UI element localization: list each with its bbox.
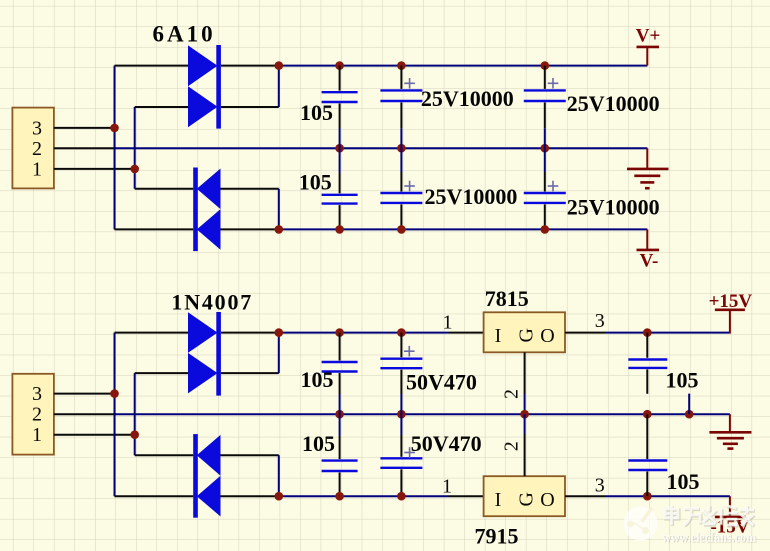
capacitor 50V470 upper xyxy=(380,333,476,415)
wire GND rail xyxy=(115,147,648,149)
ground bottom xyxy=(709,414,751,448)
wire pin1 J2 xyxy=(54,434,135,436)
wire anode D2 xyxy=(135,106,188,108)
capacitor 105 b-upper xyxy=(301,333,358,415)
svg-text:3: 3 xyxy=(32,118,42,140)
svg-text:3: 3 xyxy=(595,310,605,332)
junction m4 xyxy=(643,410,652,419)
wire -15V rail xyxy=(605,495,730,497)
svg-text:25V10000: 25V10000 xyxy=(567,91,660,116)
wire anode D6 xyxy=(135,372,188,374)
svg-text:6A10: 6A10 xyxy=(153,22,216,47)
svg-text:2: 2 xyxy=(501,441,523,451)
svg-text:1: 1 xyxy=(32,159,42,181)
wire pin1 J1 xyxy=(54,168,135,170)
junction C1 top xyxy=(335,61,344,70)
junction b3 xyxy=(397,328,406,337)
svg-text:105: 105 xyxy=(667,469,700,494)
svg-text:1N4007: 1N4007 xyxy=(171,290,253,315)
diode pair D3 D4 xyxy=(193,168,220,252)
capacitor 105 out-upper xyxy=(628,333,698,394)
junction out2 xyxy=(643,492,652,501)
svg-text:50V470: 50V470 xyxy=(411,431,482,456)
wire rail to U2 xyxy=(279,495,449,497)
capacitor 25V10000 B xyxy=(524,66,660,149)
junction b2 xyxy=(335,328,344,337)
svg-text:G: G xyxy=(516,492,538,506)
wire cathode D8 xyxy=(115,495,194,497)
wire pin2 J2 xyxy=(54,413,116,415)
diode pair D7 D8 xyxy=(193,434,220,518)
wire cathode D4 xyxy=(115,228,194,230)
junction pin1 xyxy=(130,165,139,174)
junction C1 bot xyxy=(335,225,344,234)
power V- xyxy=(637,229,660,271)
wire anode D4 xyxy=(221,228,279,230)
junction C2 mid xyxy=(397,144,406,153)
wire V+ rail xyxy=(279,65,648,67)
junction C2 top xyxy=(397,61,406,70)
capacitor 105 top-left xyxy=(300,66,358,149)
wire cathode D5 xyxy=(221,332,279,334)
junction pin1 J2 xyxy=(130,430,139,439)
wire pin2 J1 xyxy=(54,147,116,149)
capacitor 25V10000 D xyxy=(524,148,660,229)
wire cathode D1 xyxy=(221,65,279,67)
wire join cathodes2 xyxy=(278,332,280,374)
junction c3 xyxy=(397,492,406,501)
wire cathode D6 xyxy=(221,372,279,374)
svg-text:105: 105 xyxy=(666,368,699,393)
junction out1 xyxy=(643,328,652,337)
junction c2 xyxy=(335,492,344,501)
svg-text:7815: 7815 xyxy=(485,286,529,311)
junction m1 xyxy=(335,410,344,419)
pin 2 U1 xyxy=(524,352,526,394)
wire join anodes xyxy=(278,189,280,230)
power -15V xyxy=(710,496,749,537)
svg-text:1: 1 xyxy=(443,312,453,334)
wire vertical node C xyxy=(114,333,116,497)
svg-text:3: 3 xyxy=(595,475,605,497)
junction b1 xyxy=(275,328,284,337)
wire cathode D7 xyxy=(135,454,194,456)
svg-text:O: O xyxy=(540,325,554,347)
wire anode D1 xyxy=(115,65,189,67)
junction m5 xyxy=(685,410,694,419)
wire anode D5 xyxy=(115,332,189,334)
pin 3 U1 xyxy=(565,332,605,334)
junction c1 xyxy=(275,492,284,501)
svg-text:www.elecfans.com: www.elecfans.com xyxy=(662,531,756,546)
wire cathode D2 xyxy=(221,106,279,108)
wire pin3 J2 xyxy=(54,393,115,395)
svg-text:2: 2 xyxy=(32,404,42,426)
junction pin3 J2 xyxy=(110,389,119,398)
svg-text:2: 2 xyxy=(32,138,42,160)
svg-text:105: 105 xyxy=(299,170,332,195)
svg-text:I: I xyxy=(495,325,502,347)
connector J2 xyxy=(12,374,54,455)
svg-text:1: 1 xyxy=(32,424,42,446)
pin 2 U2 xyxy=(524,434,526,476)
connector J1 xyxy=(12,108,54,189)
wire mid rail B xyxy=(115,413,730,415)
svg-text:O: O xyxy=(540,489,554,511)
junction C1 mid xyxy=(335,144,344,153)
diode pair D1 D2 6A10 xyxy=(153,22,221,129)
capacitor 50V470 lower xyxy=(380,414,481,496)
wire +15V rail xyxy=(605,332,730,334)
junction pin3 xyxy=(110,124,119,133)
svg-text:G: G xyxy=(516,328,538,342)
junction C3 top xyxy=(541,61,550,70)
wire anode D8 xyxy=(221,495,279,497)
watermark chinese text xyxy=(666,506,755,526)
wire join cathodes xyxy=(278,65,280,107)
wire vertical node A xyxy=(114,66,116,230)
regulator U2 7915 xyxy=(475,476,566,548)
junction C3 mid xyxy=(541,144,550,153)
wire anode D3 xyxy=(221,188,279,190)
svg-text:3: 3 xyxy=(32,383,42,405)
regulator U1 7815 xyxy=(484,286,565,353)
capacitor 105 b-lower xyxy=(302,414,358,496)
wire rail to U1 xyxy=(279,332,449,334)
ground top xyxy=(627,148,669,188)
watermark logo xyxy=(624,507,658,541)
wire cathode D3 xyxy=(135,188,194,190)
junction m2 xyxy=(397,410,406,419)
pin 1 U2 xyxy=(449,495,484,497)
svg-text:+15V: +15V xyxy=(709,291,753,312)
capacitor 25V10000 C xyxy=(380,148,517,229)
svg-text:25V10000: 25V10000 xyxy=(567,195,660,220)
pin 3 U2 xyxy=(565,495,605,497)
svg-text:7915: 7915 xyxy=(475,524,519,549)
power V+ xyxy=(636,26,661,66)
svg-text:25V10000: 25V10000 xyxy=(425,184,518,209)
svg-text:V+: V+ xyxy=(636,26,661,47)
svg-text:25V10000: 25V10000 xyxy=(421,86,514,111)
svg-text:1: 1 xyxy=(442,476,452,498)
junction rail xyxy=(275,61,284,70)
svg-text:105: 105 xyxy=(301,367,334,392)
pin 1 U1 xyxy=(449,332,484,334)
svg-text:V-: V- xyxy=(640,251,659,272)
junction rail2 xyxy=(275,225,284,234)
wire vertical node D xyxy=(134,373,136,455)
wire anode D7 xyxy=(221,454,279,456)
junction C2 bot xyxy=(397,225,406,234)
wire V- rail xyxy=(279,228,648,230)
diode pair D5 D6 1N4007 xyxy=(171,290,253,396)
capacitor 105 out-lower xyxy=(628,414,699,496)
junction C3 bot xyxy=(541,225,550,234)
power +15V xyxy=(709,291,753,334)
capacitor 25V10000 A xyxy=(380,66,513,149)
svg-text:2: 2 xyxy=(501,389,523,399)
junction m3 xyxy=(520,410,529,419)
wire stub node E xyxy=(688,394,690,415)
svg-text:I: I xyxy=(495,489,502,511)
svg-text:105: 105 xyxy=(300,100,333,125)
capacitor 105 mid-left xyxy=(299,148,358,229)
wire pin3 J1 xyxy=(54,127,115,129)
wire vertical node B xyxy=(134,107,136,189)
svg-text:105: 105 xyxy=(302,431,335,456)
wire join anodes2 xyxy=(278,455,280,496)
svg-text:50V470: 50V470 xyxy=(406,369,477,394)
